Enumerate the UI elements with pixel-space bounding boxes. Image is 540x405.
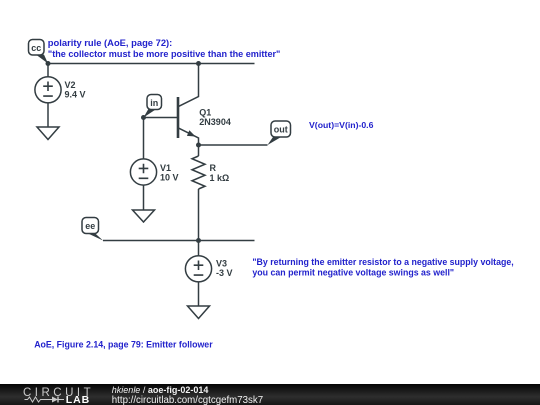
svg-text:LAB: LAB [66, 394, 90, 405]
svg-text:1 kΩ: 1 kΩ [210, 173, 230, 183]
svg-text:in: in [150, 98, 158, 108]
svg-text:10 V: 10 V [160, 173, 179, 183]
svg-text:AoE, Figure 2.14, page 79: Emi: AoE, Figure 2.14, page 79: Emitter follo… [34, 340, 213, 350]
svg-text:V1: V1 [160, 163, 171, 173]
svg-text:cc: cc [31, 43, 41, 53]
svg-text:-3 V: -3 V [216, 268, 233, 278]
svg-text:9.4 V: 9.4 V [65, 89, 86, 99]
svg-text:you can permit negative voltag: you can permit negative voltage swings a… [252, 268, 454, 278]
svg-text:"By returning the emitter resi: "By returning the emitter resistor to a … [252, 257, 513, 267]
svg-text:polarity rule (AoE, page 72):: polarity rule (AoE, page 72): [48, 37, 173, 48]
svg-text:R: R [210, 163, 217, 173]
svg-text:2N3904: 2N3904 [199, 117, 231, 127]
svg-text:ee: ee [85, 221, 95, 231]
svg-text:"the collector must be more po: "the collector must be more positive tha… [48, 49, 280, 59]
svg-text:V(out)=V(in)-0.6: V(out)=V(in)-0.6 [309, 120, 374, 130]
svg-text:out: out [274, 124, 288, 134]
